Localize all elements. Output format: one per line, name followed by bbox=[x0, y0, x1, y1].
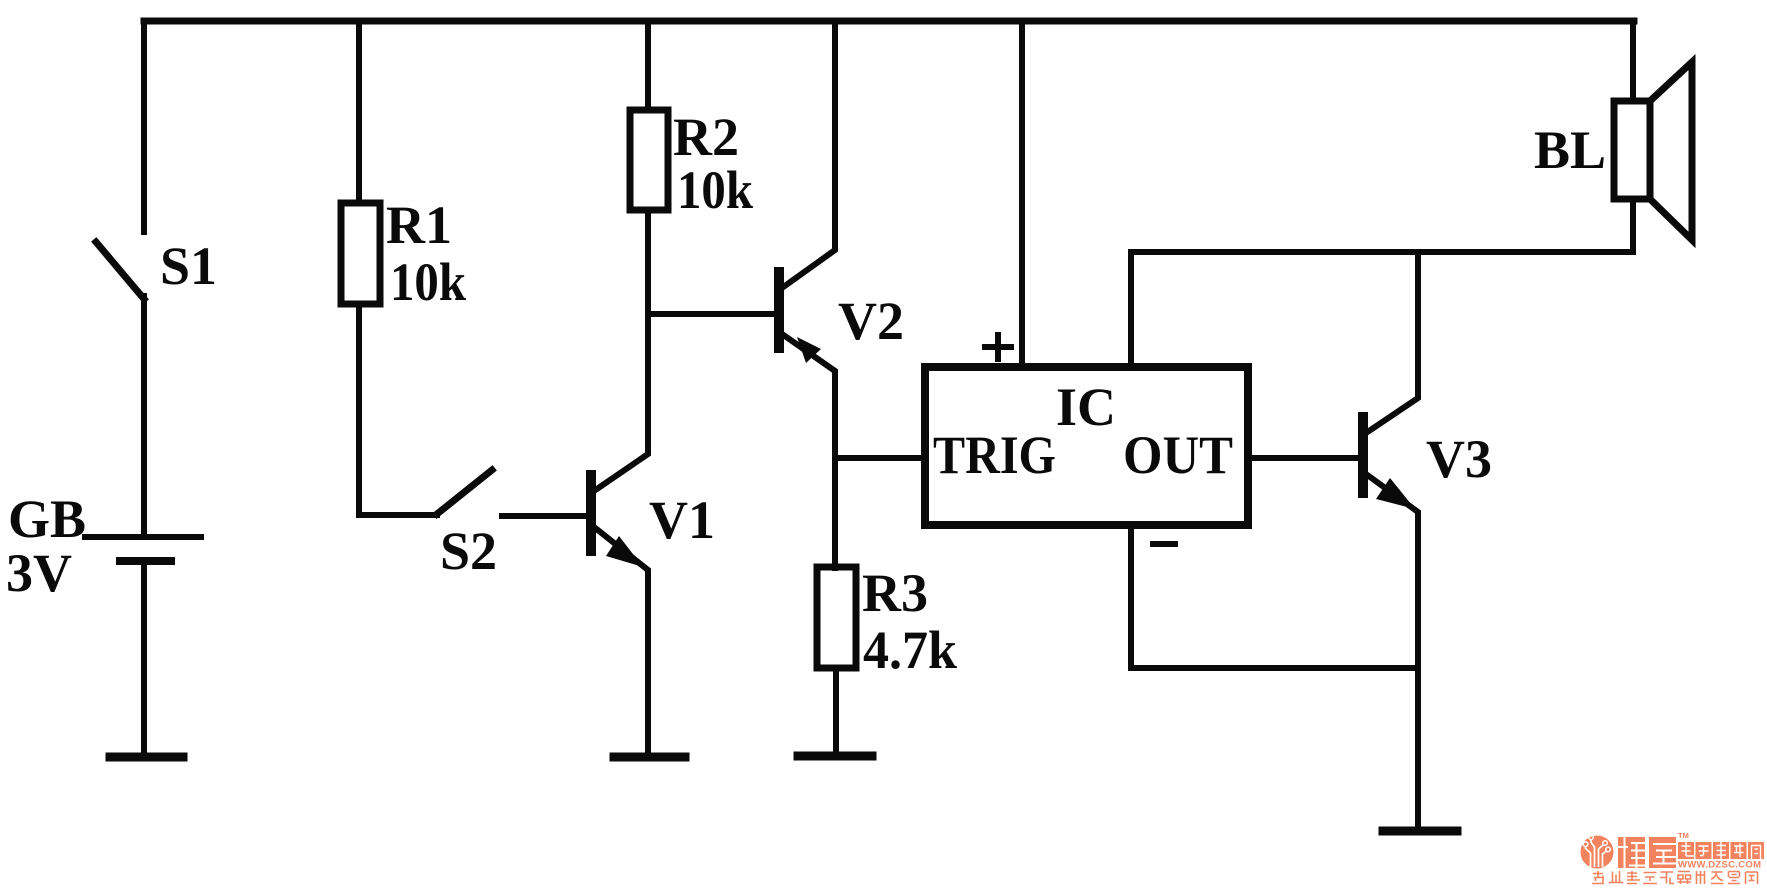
svg-text:R2: R2 bbox=[673, 107, 739, 167]
svg-text:OUT: OUT bbox=[1123, 425, 1233, 485]
IC box U1 bbox=[925, 367, 1248, 525]
svg-text:S1: S1 bbox=[160, 236, 217, 296]
transistor V2 collector bbox=[782, 21, 835, 288]
transistor V1 emitter arrow bbox=[606, 536, 643, 567]
transistor V1 collector bbox=[594, 210, 648, 491]
svg-text:IC: IC bbox=[1056, 377, 1116, 437]
resistor R2 bbox=[630, 110, 668, 210]
svg-text:TM: TM bbox=[1678, 831, 1689, 840]
resistor R3 bbox=[817, 567, 856, 668]
transistor V2 emitter bbox=[782, 334, 835, 568]
svg-text:4.7k: 4.7k bbox=[863, 620, 957, 680]
switch S2 bbox=[437, 470, 492, 514]
watermark logo circle bbox=[1581, 836, 1614, 869]
wire battery to bottom terminal bbox=[141, 561, 147, 754]
wire OUT to V3 base bbox=[1248, 455, 1360, 461]
wire IC plus supply bbox=[1019, 21, 1025, 367]
svg-text:WWW.DZSC.COM: WWW.DZSC.COM bbox=[1678, 860, 1761, 871]
svg-text:BL: BL bbox=[1534, 120, 1606, 180]
resistor R1 bbox=[341, 203, 380, 304]
transistor V3 collector bbox=[1366, 252, 1418, 433]
svg-text:TRIG: TRIG bbox=[933, 425, 1056, 485]
speaker BL horn bbox=[1650, 62, 1692, 240]
transistor V3 base bar bbox=[1358, 417, 1368, 493]
svg-text:10k: 10k bbox=[677, 160, 753, 220]
wire R3 bottom bbox=[833, 668, 839, 752]
wire IC minus lead to V3 emitter bbox=[1131, 525, 1418, 668]
ground bar V1 bbox=[614, 753, 685, 762]
transistor V3 emitter arrow bbox=[1376, 478, 1415, 509]
watermark brand glyph wei bbox=[1618, 837, 1645, 868]
watermark glyphs dian zi shi chang wang bbox=[1678, 842, 1764, 859]
wire R1 column upper bbox=[356, 21, 362, 203]
ground bar V3 bbox=[1383, 827, 1457, 836]
label IC plus pin bbox=[982, 332, 1014, 362]
wire BL top bbox=[1630, 21, 1636, 101]
transistor V2 base bar bbox=[774, 272, 784, 348]
svg-text:R3: R3 bbox=[862, 563, 928, 623]
transistor V1 emitter bbox=[594, 527, 648, 753]
battery bottom terminal bar bbox=[110, 753, 183, 762]
watermark brand glyph ku bbox=[1649, 837, 1676, 868]
battery GB negative plate bbox=[120, 557, 171, 565]
wire IC top right to collector rail bbox=[1131, 252, 1633, 367]
svg-text:V3: V3 bbox=[1426, 429, 1492, 489]
switch S1 bbox=[96, 242, 144, 299]
svg-text:10k: 10k bbox=[390, 252, 466, 312]
label IC minus pin bbox=[1150, 541, 1178, 547]
svg-text:R1: R1 bbox=[386, 195, 452, 255]
ground bar R3 bbox=[798, 752, 872, 761]
wire top supply rail bbox=[144, 18, 1634, 25]
wire V2 base bbox=[648, 311, 776, 317]
wire R2 column upper bbox=[645, 21, 651, 110]
battery GB positive plate bbox=[85, 534, 201, 540]
svg-text:3V: 3V bbox=[6, 543, 72, 603]
svg-text:GB: GB bbox=[8, 489, 86, 549]
wire battery column upper bbox=[141, 21, 147, 232]
wire BL bottom bbox=[1630, 199, 1636, 252]
transistor V2 emitter arrow bbox=[797, 337, 821, 363]
transistor V1 base bar bbox=[586, 475, 596, 551]
wire S2 to V1 base bbox=[502, 513, 588, 519]
wire S1 to battery bbox=[141, 296, 147, 534]
watermark slogan glyphs bbox=[1592, 871, 1758, 884]
wire R1 bottom, corner to S2 bbox=[359, 304, 437, 515]
svg-text:V1: V1 bbox=[649, 490, 715, 550]
wire TRIG input bbox=[836, 455, 925, 461]
svg-text:V2: V2 bbox=[838, 291, 904, 351]
svg-text:S2: S2 bbox=[440, 521, 497, 581]
watermark logo circuit traces bbox=[1586, 840, 1607, 868]
speaker BL body bbox=[1614, 101, 1650, 199]
transistor V3 emitter bbox=[1366, 474, 1418, 828]
